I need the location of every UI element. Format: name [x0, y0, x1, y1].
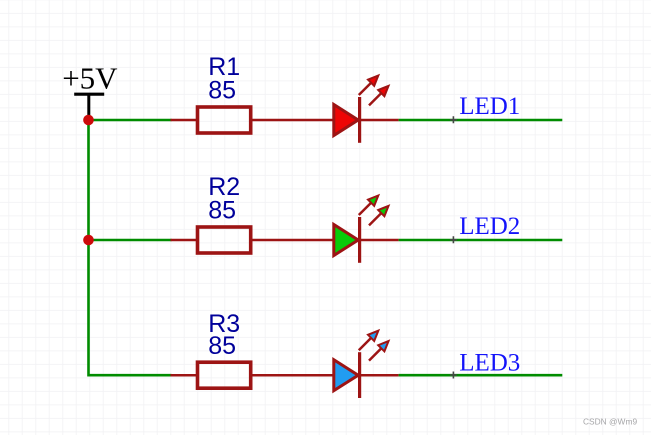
- LED D3 blue: triangle anode: [334, 360, 358, 391]
- wire label anchor cross row3: [450, 372, 457, 379]
- LED D2 cathode bar: [358, 217, 361, 263]
- LED D2 green: triangle anode: [334, 225, 358, 256]
- resistor R3 body: [198, 362, 251, 388]
- wire: vertical +5V rail from first junction down to third row corner: [89, 120, 172, 375]
- wire row3 green (LED to end): [399, 374, 563, 377]
- LED D2 emission arrow 1: [359, 196, 379, 216]
- resistor R1 body: [198, 107, 251, 133]
- LED D3 cathode bar: [358, 352, 361, 398]
- wire row2 green (junction to R2 pin): [89, 239, 172, 242]
- junction node row2: [83, 235, 94, 246]
- pin wire R3 left: [171, 374, 198, 377]
- power symbol +5V (bar): [74, 94, 104, 120]
- svg-text:LED1: LED1: [459, 93, 520, 120]
- LED D1 red: triangle anode: [334, 105, 358, 136]
- svg-text:85: 85: [208, 196, 236, 224]
- wire label anchor cross row2: [450, 236, 457, 243]
- pin wire R2 left: [171, 239, 198, 242]
- pin wire R1 left: [171, 119, 198, 122]
- resistor R2 body: [198, 227, 251, 253]
- svg-text:+5V: +5V: [62, 61, 118, 96]
- LED D1 cathode bar: [358, 97, 361, 143]
- wire row1 green (junction to R1 pin): [89, 119, 172, 122]
- svg-text:CSDN @Wm9: CSDN @Wm9: [583, 417, 637, 427]
- LED D1 emission arrow 1: [359, 76, 379, 96]
- LED D3 emission arrow 1: [359, 331, 379, 351]
- LED D2 emission arrow 2: [369, 206, 389, 226]
- svg-text:LED3: LED3: [459, 350, 520, 377]
- LED D3 emission arrow 2: [369, 341, 389, 361]
- pin wire R2 right to LED D2: [251, 239, 399, 242]
- svg-text:85: 85: [208, 332, 236, 360]
- pin wire R1 right to LED D1: [251, 119, 399, 122]
- wire row1 green (LED to end): [399, 119, 563, 122]
- svg-text:LED2: LED2: [459, 213, 520, 240]
- wire label anchor cross row1: [450, 116, 457, 123]
- junction node row1: [83, 115, 94, 126]
- wire row2 green (LED to end): [399, 239, 563, 242]
- pin wire R3 right to LED D3: [251, 374, 399, 377]
- LED D1 emission arrow 2: [369, 86, 389, 106]
- svg-text:85: 85: [208, 76, 236, 104]
